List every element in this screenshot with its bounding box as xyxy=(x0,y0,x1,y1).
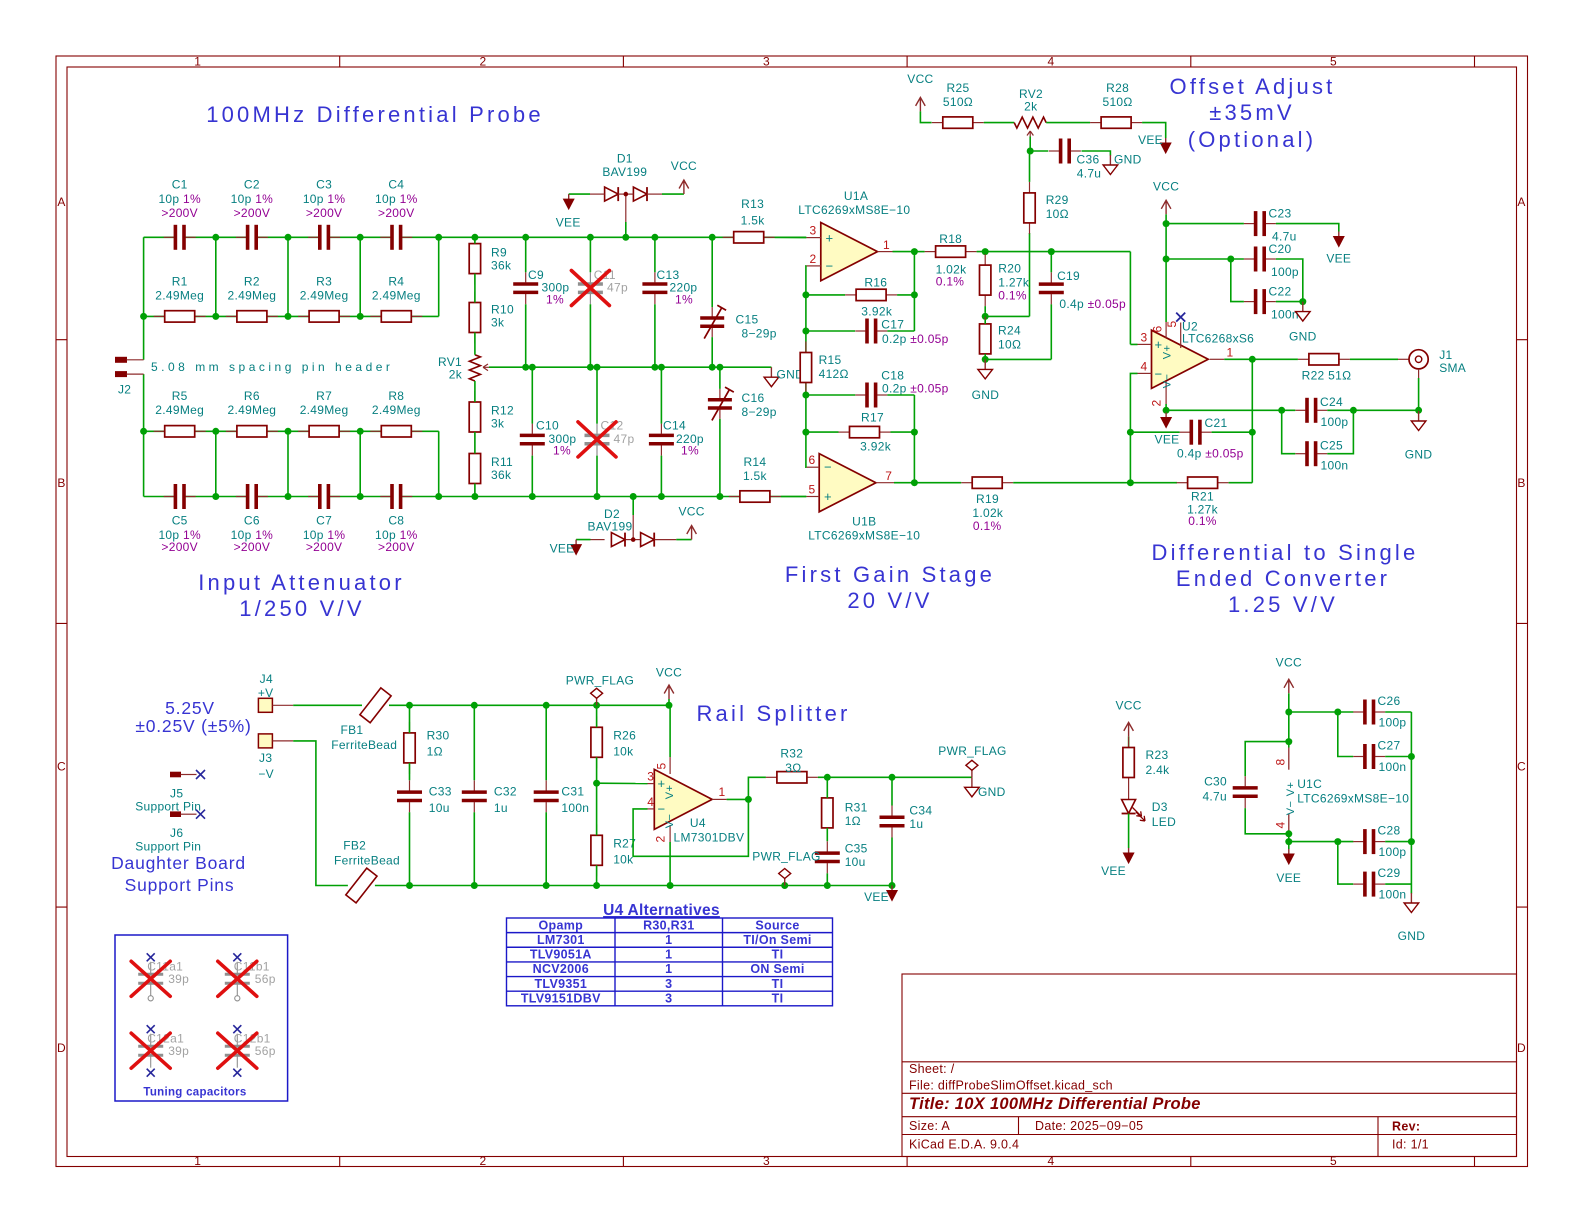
ferrite bead FB1 xyxy=(331,688,397,752)
resistor R9 xyxy=(469,238,512,285)
resistor R27 xyxy=(591,824,636,876)
svg-text:SMA: SMA xyxy=(1439,361,1466,375)
wire U2 out xyxy=(1224,358,1252,360)
junction xyxy=(543,702,550,709)
svg-text:LTC6269xMS8E−10: LTC6269xMS8E−10 xyxy=(808,528,920,542)
power GND at C36 xyxy=(1103,152,1142,174)
svg-text:412Ω: 412Ω xyxy=(819,367,849,381)
power VCC at D2 xyxy=(678,505,704,540)
svg-text:C10: C10 xyxy=(536,419,559,433)
wire R30-C33, C33-rail xyxy=(409,763,411,886)
op-amp U1A xyxy=(821,223,878,281)
capacitor C24 xyxy=(1295,395,1348,429)
svg-text:6: 6 xyxy=(1151,325,1165,332)
capacitor C3 xyxy=(303,178,346,250)
svg-text:1u: 1u xyxy=(909,817,923,831)
junction xyxy=(1285,738,1292,745)
op-amp U2 pins and labels xyxy=(1138,319,1255,406)
svg-text:A: A xyxy=(1517,195,1525,209)
svg-text:TI: TI xyxy=(772,991,784,1005)
junction xyxy=(911,479,918,486)
svg-text:C8: C8 xyxy=(388,514,404,528)
svg-text:R15: R15 xyxy=(819,353,842,367)
svg-text:2: 2 xyxy=(480,1154,487,1168)
wire right feedback rail lower xyxy=(887,395,914,483)
svg-text:−: − xyxy=(824,460,832,475)
svg-text:TI: TI xyxy=(772,977,784,991)
junction xyxy=(709,234,716,241)
wire J3 down to FB2 xyxy=(293,741,348,886)
svg-text:2: 2 xyxy=(654,835,668,842)
wire to C20 xyxy=(1166,258,1244,260)
svg-text:BAV199: BAV199 xyxy=(588,520,633,534)
wire VCC to R25 xyxy=(920,111,931,122)
svg-text:>200V: >200V xyxy=(378,540,415,554)
svg-text:10p 1%: 10p 1% xyxy=(231,192,274,206)
connector J6 xyxy=(135,810,205,854)
junction xyxy=(471,234,478,241)
junction xyxy=(587,364,594,371)
svg-text:R22 51Ω: R22 51Ω xyxy=(1302,369,1352,383)
capacitor C1 xyxy=(158,178,201,250)
svg-text:−: − xyxy=(826,258,834,273)
resistor R21 xyxy=(1177,477,1229,528)
note Daughter Board Support Pins xyxy=(111,853,246,895)
svg-text:100p: 100p xyxy=(1379,715,1407,729)
no-connect U2 pin5 xyxy=(1176,313,1185,322)
wire VCC to R23 xyxy=(1128,736,1130,747)
svg-text:C31: C31 xyxy=(561,785,584,799)
power flag PWR_FLAG VEE xyxy=(752,850,820,886)
wire U4 pin2 stem xyxy=(669,842,671,886)
svg-text:10p 1%: 10p 1% xyxy=(303,192,346,206)
wire C13 column xyxy=(654,237,656,367)
capacitor C12 (DNP) xyxy=(585,419,635,456)
svg-text:>200V: >200V xyxy=(306,540,343,554)
svg-text:−V: −V xyxy=(258,767,274,781)
wire R28 to VEE xyxy=(1142,123,1166,138)
DNP cross C12 xyxy=(578,422,616,457)
op-amp U1C power pins xyxy=(1274,748,1410,832)
svg-text:>200V: >200V xyxy=(234,540,271,554)
svg-text:FerriteBead: FerriteBead xyxy=(331,738,397,752)
wire C24 row to J1 gnd xyxy=(1353,409,1418,411)
svg-text:C20: C20 xyxy=(1269,242,1292,256)
wire pin2 to C24 row xyxy=(1166,409,1282,411)
junction xyxy=(651,234,658,241)
wire R18 to U2 net xyxy=(977,252,1138,345)
wire R1-R4 row xyxy=(144,315,439,317)
junction xyxy=(285,234,292,241)
svg-text:Date: 2025−09−05: Date: 2025−09−05 xyxy=(1035,1119,1143,1133)
svg-text:GND: GND xyxy=(1114,152,1142,166)
svg-text:R1: R1 xyxy=(172,275,188,289)
svg-text:2k: 2k xyxy=(1024,99,1038,113)
svg-text:C16: C16 xyxy=(742,391,765,405)
svg-text:+V: +V xyxy=(258,686,274,700)
wire U1C top to C26 row xyxy=(1289,711,1354,713)
svg-text:R20: R20 xyxy=(998,262,1021,276)
svg-text:U1C: U1C xyxy=(1297,777,1322,791)
svg-text:C34: C34 xyxy=(909,804,932,818)
capacitor C29 xyxy=(1353,866,1406,901)
capacitor C26 xyxy=(1353,694,1406,729)
power VEE at D1 xyxy=(556,194,581,229)
svg-text:3: 3 xyxy=(665,991,672,1005)
resistor R13 xyxy=(723,197,775,243)
svg-text:1: 1 xyxy=(665,948,672,962)
svg-text:V+: V+ xyxy=(1162,345,1174,359)
wire D3 to VEE xyxy=(1128,814,1130,849)
svg-text:R16: R16 xyxy=(864,276,887,290)
wire RV2 wiper to R29 xyxy=(1029,151,1031,182)
wire R20 bottom to R29 xyxy=(985,233,1029,316)
wire C26 right xyxy=(1385,711,1411,713)
svg-text:C28: C28 xyxy=(1378,824,1401,838)
resistor R29 xyxy=(1024,182,1069,234)
connector J1 SMA xyxy=(1398,348,1466,378)
wire U2 pin2 down xyxy=(1165,404,1167,410)
junction xyxy=(1127,429,1134,436)
capacitor C13 xyxy=(642,268,697,306)
svg-text:BAV199: BAV199 xyxy=(602,165,647,179)
junction xyxy=(1415,407,1422,414)
op-amp U4 xyxy=(654,769,712,829)
svg-text:8−29p: 8−29p xyxy=(742,405,777,419)
wire C22 left loop xyxy=(1231,259,1303,302)
svg-text:GND: GND xyxy=(978,785,1006,799)
svg-text:LM7301DBV: LM7301DBV xyxy=(674,830,745,844)
junction xyxy=(406,882,413,889)
power VCC at R23 xyxy=(1115,698,1141,736)
svg-text:C30: C30 xyxy=(1204,775,1227,789)
svg-text:1: 1 xyxy=(194,1154,201,1168)
junction xyxy=(357,313,364,320)
svg-text:510Ω: 510Ω xyxy=(1102,95,1132,109)
capacitor C36 xyxy=(1049,139,1101,181)
wire U2 out to R22 xyxy=(1252,358,1298,360)
wire R14 to U1B pin5 xyxy=(781,496,807,498)
junction xyxy=(666,702,673,709)
junction xyxy=(471,493,478,500)
svg-text:0.4p ±0.05p: 0.4p ±0.05p xyxy=(1177,446,1244,460)
op-amp U4 pins and labels xyxy=(647,757,744,844)
svg-text:VEE: VEE xyxy=(1138,133,1163,147)
svg-text:Size: A: Size: A xyxy=(909,1119,950,1133)
resistor R25 xyxy=(932,81,984,128)
svg-text:R3: R3 xyxy=(316,275,332,289)
svg-text:R5: R5 xyxy=(172,389,188,403)
resistor R31 xyxy=(822,787,868,839)
svg-text:1: 1 xyxy=(883,238,890,252)
capacitor C35 xyxy=(815,841,868,873)
trimmer capacitor C15 xyxy=(700,305,777,340)
svg-text:Rev:: Rev: xyxy=(1392,1120,1420,1134)
wire VCC stem xyxy=(668,699,670,705)
svg-text:Rail Splitter: Rail Splitter xyxy=(696,701,850,726)
power VEE at C23 xyxy=(1326,232,1351,266)
svg-text:56p: 56p xyxy=(255,972,276,986)
resistor R2 xyxy=(226,275,278,322)
resistor R1 xyxy=(154,275,206,322)
svg-text:100n: 100n xyxy=(561,801,589,815)
resistor R4 xyxy=(370,275,422,322)
svg-text:KiCad E.D.A. 9.0.4: KiCad E.D.A. 9.0.4 xyxy=(909,1138,1019,1152)
svg-text:39p: 39p xyxy=(168,1044,189,1058)
svg-text:Opamp: Opamp xyxy=(539,918,584,932)
svg-text:3.92k: 3.92k xyxy=(860,440,892,454)
svg-text:VEE: VEE xyxy=(1276,871,1301,885)
capacitor C17 xyxy=(855,318,948,346)
svg-text:PWR_FLAG: PWR_FLAG xyxy=(752,850,820,864)
svg-text:Support Pin: Support Pin xyxy=(135,840,201,854)
junction xyxy=(212,313,219,320)
wire VCC to U1C xyxy=(1288,693,1290,747)
wire VCC rail U2 xyxy=(1165,214,1167,322)
trimmer capacitor C16 xyxy=(708,387,777,420)
junction xyxy=(1408,838,1415,845)
wire to C23 xyxy=(1166,223,1244,225)
svg-text:File: diffProbeSlimOffset.kica: File: diffProbeSlimOffset.kicad_sch xyxy=(909,1079,1113,1093)
junction xyxy=(471,882,478,889)
svg-text:10k: 10k xyxy=(613,853,634,867)
svg-text:C: C xyxy=(1517,760,1526,774)
junction xyxy=(1278,407,1285,414)
junction xyxy=(889,882,896,889)
wire C34 column xyxy=(891,777,893,885)
power VEE at U1C xyxy=(1276,849,1301,885)
capacitor C8 xyxy=(375,484,418,554)
svg-text:R19: R19 xyxy=(976,492,999,506)
resistor R5 xyxy=(154,389,206,437)
svg-text:VCC: VCC xyxy=(1153,180,1179,194)
svg-text:VEE: VEE xyxy=(1155,432,1180,446)
svg-text:10u: 10u xyxy=(845,855,866,869)
svg-text:1%: 1% xyxy=(553,444,571,458)
connector J3 xyxy=(258,734,293,781)
junction xyxy=(1299,298,1306,305)
power VEE at D2 xyxy=(550,540,582,556)
svg-text:V−: V− xyxy=(1162,374,1174,388)
junction xyxy=(593,780,600,787)
svg-text:C29: C29 xyxy=(1378,866,1401,880)
LED D3 xyxy=(1122,789,1176,830)
wire R31 leads xyxy=(826,777,828,841)
table U4 Alternatives xyxy=(507,902,833,1006)
wire R13 to U1A pin3 xyxy=(775,236,807,238)
svg-text:J3: J3 xyxy=(259,751,272,765)
potentiometer RV1 xyxy=(438,355,489,382)
junction xyxy=(824,882,831,889)
svg-text:C35: C35 xyxy=(845,841,868,855)
capacitor C2 xyxy=(231,178,274,250)
svg-text:1.27k: 1.27k xyxy=(998,276,1030,290)
svg-text:47p: 47p xyxy=(607,281,628,295)
wire bottom attenuator rail xyxy=(144,496,807,498)
junction xyxy=(802,429,809,436)
power VCC at U2 xyxy=(1153,180,1179,215)
svg-text:C25: C25 xyxy=(1320,439,1343,453)
junction xyxy=(658,364,665,371)
svg-text:2.49Meg: 2.49Meg xyxy=(300,288,349,302)
svg-text:Differential to Single: Differential to Single xyxy=(1152,540,1419,565)
svg-text:47p: 47p xyxy=(614,432,635,446)
svg-text:First Gain Stage: First Gain Stage xyxy=(785,562,995,587)
svg-text:0.1%: 0.1% xyxy=(1188,514,1217,528)
wire R24 bottom to C19 xyxy=(985,304,1051,359)
capacitor C30 xyxy=(1202,775,1257,808)
svg-text:3k: 3k xyxy=(491,316,505,330)
capacitor C22 xyxy=(1244,285,1299,322)
svg-text:VEE: VEE xyxy=(1326,252,1351,266)
svg-text:C15: C15 xyxy=(736,313,759,327)
junction xyxy=(1334,709,1341,716)
svg-text:6: 6 xyxy=(809,453,816,467)
resistor R30 xyxy=(404,722,450,774)
svg-text:FB2: FB2 xyxy=(343,839,366,853)
svg-text:R24: R24 xyxy=(998,324,1021,338)
resistor R16 xyxy=(845,276,897,319)
power VEE at D3 xyxy=(1101,848,1134,878)
title note Input Attenuator xyxy=(198,570,405,621)
svg-text:D3: D3 xyxy=(1152,800,1168,814)
capacitor C10 xyxy=(520,419,577,458)
svg-text:VCC: VCC xyxy=(1276,656,1302,670)
wire pin4 row to C28 xyxy=(1289,841,1354,843)
svg-text:10Ω: 10Ω xyxy=(1046,207,1069,221)
wire C35 bottom xyxy=(826,873,828,885)
svg-text:2.49Meg: 2.49Meg xyxy=(155,403,204,417)
svg-text:C4: C4 xyxy=(388,178,404,192)
wire C36 to GND xyxy=(1082,151,1111,156)
svg-text:GND: GND xyxy=(1398,929,1426,943)
junction xyxy=(212,234,219,241)
wire C31 column xyxy=(545,705,547,885)
resistor R28 xyxy=(1090,81,1142,128)
wire C32 column xyxy=(473,705,475,885)
svg-text:C23: C23 xyxy=(1269,207,1292,221)
junction xyxy=(1285,838,1292,845)
svg-text:R13: R13 xyxy=(741,197,764,211)
svg-text:R14: R14 xyxy=(743,455,766,469)
wire C10 column xyxy=(531,367,533,496)
svg-text:1u: 1u xyxy=(494,801,508,815)
junction xyxy=(593,882,600,889)
svg-text:R10: R10 xyxy=(491,303,514,317)
svg-text:1%: 1% xyxy=(681,444,699,458)
capacitor C4 xyxy=(375,178,418,250)
svg-text:C: C xyxy=(57,760,66,774)
ferrite bead FB2 xyxy=(334,839,400,903)
junction xyxy=(285,428,292,435)
svg-text:VCC: VCC xyxy=(671,159,697,173)
wire wiper to C36 xyxy=(1030,150,1048,152)
svg-text:C14: C14 xyxy=(663,419,686,433)
wire R32 to R31 node xyxy=(818,776,892,778)
svg-text:0.1%: 0.1% xyxy=(998,289,1027,303)
svg-text:39p: 39p xyxy=(168,972,189,986)
junction xyxy=(802,291,809,298)
svg-text:5.08 mm spacing pin header: 5.08 mm spacing pin header xyxy=(151,360,393,374)
capacitor C27 xyxy=(1353,739,1406,774)
wire out rail down xyxy=(1251,359,1253,482)
svg-text:VEE: VEE xyxy=(556,216,581,230)
svg-text:100MHz Differential Probe: 100MHz Differential Probe xyxy=(206,102,544,127)
power VCC offset xyxy=(907,72,933,111)
wire U1C pin4 down xyxy=(1288,831,1290,849)
svg-text:4: 4 xyxy=(1048,55,1055,69)
svg-text:3: 3 xyxy=(763,55,770,69)
junction xyxy=(802,328,809,335)
svg-text:C33: C33 xyxy=(429,785,452,799)
svg-text:C6: C6 xyxy=(244,514,260,528)
svg-text:A: A xyxy=(57,195,65,209)
capacitor C28 xyxy=(1353,824,1406,859)
junction xyxy=(911,248,918,255)
svg-text:2.49Meg: 2.49Meg xyxy=(372,403,421,417)
svg-text:VEE: VEE xyxy=(864,890,889,904)
svg-text:R31: R31 xyxy=(845,800,868,814)
svg-text:LTC6269xMS8E−10: LTC6269xMS8E−10 xyxy=(798,203,910,217)
wire RV2 to R28 xyxy=(1046,122,1090,124)
svg-text:TI: TI xyxy=(772,948,784,962)
svg-text:0.2p ±0.05p: 0.2p ±0.05p xyxy=(882,381,949,395)
svg-text:Title: 10X 100MHz Differential: Title: 10X 100MHz Differential Probe xyxy=(909,1095,1201,1113)
junction xyxy=(630,493,637,500)
svg-text:(Optional): (Optional) xyxy=(1188,127,1317,152)
svg-text:R11: R11 xyxy=(491,455,513,469)
capacitor C34 xyxy=(880,804,933,838)
wire R26R27 to U4 pin3 xyxy=(597,782,648,784)
svg-text:+: + xyxy=(826,230,834,245)
wire C19 top lead xyxy=(1050,252,1052,273)
wire RV2 wiper down xyxy=(1029,137,1031,152)
wire C30 bottom loop xyxy=(1245,808,1289,834)
wire mid rail xyxy=(489,366,771,368)
svg-text:GND: GND xyxy=(972,388,1000,402)
wire U1A out to R18 xyxy=(914,251,924,253)
junction xyxy=(1127,479,1134,486)
junction xyxy=(622,234,629,241)
junction xyxy=(522,234,529,241)
svg-text:J2: J2 xyxy=(118,383,131,397)
svg-text:J5: J5 xyxy=(170,786,183,800)
wire R24 leads xyxy=(984,320,986,360)
capacitor C20 xyxy=(1244,242,1299,279)
tuning capacitor C12b1 (DNP) xyxy=(218,1025,276,1077)
op-amp U1A pins and labels xyxy=(798,189,910,273)
junction xyxy=(824,774,831,781)
resistor R10 xyxy=(469,292,514,344)
title note Offset Adjust xyxy=(1170,74,1336,152)
svg-text:U4 Alternatives: U4 Alternatives xyxy=(603,902,720,919)
svg-text:2.49Meg: 2.49Meg xyxy=(300,403,349,417)
svg-text:Ended Converter: Ended Converter xyxy=(1176,566,1390,591)
svg-text:3k: 3k xyxy=(491,416,505,430)
wire pin4 rail to R21 row xyxy=(1129,432,1131,483)
svg-text:C21: C21 xyxy=(1205,416,1228,430)
connector J2 xyxy=(116,357,144,396)
junction xyxy=(1227,256,1234,263)
svg-text:0.4p ±0.05p: 0.4p ±0.05p xyxy=(1059,297,1126,311)
svg-text:1.5k: 1.5k xyxy=(741,214,766,228)
op-amp U1B xyxy=(819,454,876,512)
svg-text:36k: 36k xyxy=(491,259,512,273)
svg-text:TLV9051A: TLV9051A xyxy=(530,948,592,962)
svg-text:±0.25V (±5%): ±0.25V (±5%) xyxy=(135,716,251,736)
svg-text:4: 4 xyxy=(647,795,654,809)
resistor R22 xyxy=(1298,354,1351,383)
